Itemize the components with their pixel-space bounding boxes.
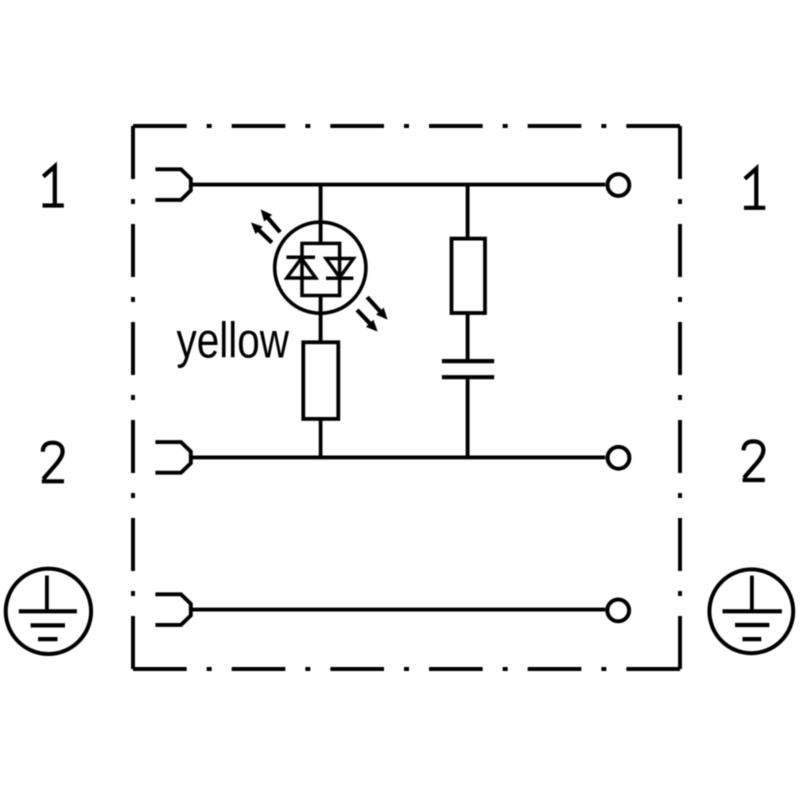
svg-text:yellow: yellow — [177, 312, 290, 368]
